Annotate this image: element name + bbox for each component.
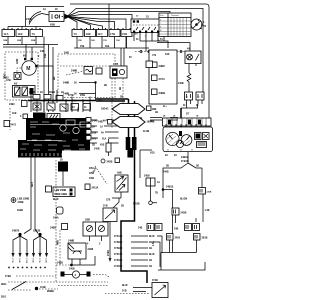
svg-text:24MB: 24MB: [71, 70, 78, 73]
svg-text:Pos: Pos: [160, 15, 163, 17]
svg-text:34BB: 34BB: [18, 201, 24, 204]
junction 24B1B: [162, 188, 165, 191]
svg-text:240B: 240B: [207, 191, 212, 194]
wire feed S1 drop: [67, 17, 126, 49]
heavy wire top to diamonds: [96, 99, 129, 101]
wire switch drop: [109, 221, 111, 223]
svg-text:7A: 7A: [74, 32, 78, 36]
fuse holder 1/5 a: [185, 92, 193, 100]
svg-text:2MB: 2MB: [17, 40, 22, 42]
ground labels: [11, 258, 47, 264]
svg-text:M/BB 34BB: M/BB 34BB: [55, 193, 68, 196]
connector B 24/2B: [101, 159, 105, 163]
connector 201B: [194, 234, 201, 241]
svg-text:24DB: 24DB: [107, 161, 113, 164]
wiper motor dashed enclosure 4/40: [5, 52, 38, 100]
svg-text:24B7: 24B7: [98, 121, 104, 124]
ground net rows: [114, 235, 162, 268]
svg-text:4/0B: 4/0B: [50, 24, 55, 27]
svg-text:2B1B: 2B1B: [202, 238, 208, 240]
wire fuse pins down: [187, 100, 203, 104]
svg-text:175B: 175B: [68, 95, 74, 97]
svg-text:5/35: 5/35: [150, 153, 155, 155]
svg-text:24B3: 24B3: [9, 103, 15, 106]
wire spine down: [121, 157, 147, 283]
svg-text:4B: 4B: [155, 111, 158, 114]
svg-text:B.+: B.+: [163, 106, 167, 108]
battery fusible-link arc B: [29, 14, 49, 25]
junction dots on bus: [43, 99, 45, 101]
terminal table 1/6: [159, 13, 191, 37]
svg-text:2B: 2B: [104, 85, 107, 87]
svg-text:3YB: 3YB: [122, 291, 127, 293]
svg-text:15B: 15B: [122, 32, 127, 36]
svg-text:24B8: 24B8: [88, 248, 94, 251]
connector 240B: [199, 188, 206, 195]
svg-text:BL/R: BL/R: [122, 285, 128, 287]
svg-text:245B: 245B: [94, 148, 100, 151]
svg-text:3YBB: 3YBB: [25, 258, 27, 264]
svg-text:31BB: 31BB: [49, 92, 55, 94]
svg-text:14MB: 14MB: [68, 240, 75, 243]
diagonal link wire: [12, 282, 26, 290]
svg-text:11C: 11C: [98, 32, 103, 36]
module pin box: [146, 61, 153, 68]
svg-text:24B7B: 24B7B: [12, 230, 20, 233]
loop wires bottom right: [161, 240, 197, 270]
connector 2413A: [85, 184, 90, 190]
connector row C: [135, 51, 188, 53]
svg-text:1.3B: 1.3B: [205, 210, 210, 212]
svg-text:24Y3: 24Y3: [159, 77, 166, 81]
connector 24DB mid: [172, 208, 179, 215]
svg-text:24DB: 24DB: [159, 91, 166, 95]
harness connector arrow 19D4/B: [112, 117, 145, 128]
inner dashed line: [60, 65, 112, 67]
svg-text:2B/J: 2B/J: [1, 297, 7, 299]
fuse holder 1/5 b: [196, 92, 204, 100]
svg-text:A9B: A9B: [117, 172, 122, 175]
wire motor feed up: [25, 45, 27, 58]
svg-text:24BB: 24BB: [57, 262, 63, 265]
svg-text:2MB: 2MB: [31, 40, 36, 42]
wire branch to connector: [139, 150, 141, 178]
heavy bus y100: [28, 100, 96, 102]
svg-text:3Y5A/O: 3Y5A/O: [114, 235, 122, 238]
svg-text:2A: 2A: [165, 154, 168, 157]
connector pill 243A: [57, 207, 64, 214]
wire coil feeds: [121, 48, 124, 66]
battery fusible-link arc A: [29, 12, 41, 23]
fuse F7: [109, 30, 120, 37]
fan junction right: [38, 233, 41, 236]
svg-text:16B: 16B: [91, 40, 95, 42]
battery 1/1: [49, 12, 64, 22]
svg-text:24B8: 24B8: [29, 91, 35, 94]
svg-text:24/B: 24/B: [64, 52, 69, 55]
svg-text:190: 190: [165, 52, 170, 56]
connector 24Y3: [4, 121, 10, 127]
heavy connector blocks: [126, 137, 131, 150]
svg-text:4A: 4A: [101, 132, 104, 135]
ignition lock hatched block: [33, 113, 46, 122]
svg-text:7/9: 7/9: [152, 53, 157, 57]
svg-text:17B: 17B: [110, 32, 115, 36]
fuse F5: [85, 30, 96, 37]
inline connector bottom center: [61, 272, 65, 277]
svg-text:4B/Y: 4B/Y: [31, 181, 34, 187]
svg-text:3A: 3A: [74, 82, 77, 85]
svg-text:1455: 1455: [113, 63, 119, 66]
svg-text:31B: 31B: [92, 133, 97, 135]
svg-text:17B: 17B: [103, 40, 107, 42]
svg-text:BL/R: BL/R: [149, 236, 155, 238]
svg-text:1.5B: 1.5B: [153, 241, 155, 246]
svg-text:24MB: 24MB: [63, 82, 70, 85]
wire feed to fuse 17B: [67, 17, 115, 30]
svg-text:24Y3: 24Y3: [11, 124, 17, 127]
svg-text:3/5B: 3/5B: [89, 178, 94, 180]
connector 241B: [167, 234, 174, 241]
svg-text:BL/R: BL/R: [149, 254, 155, 256]
svg-text:Terminal: Terminal: [171, 15, 179, 17]
connector C4/8: [146, 178, 155, 186]
dashed separator bottom: [8, 281, 108, 283]
wire long vertical c: [52, 47, 54, 112]
wire fuse feed stubs: [8, 27, 36, 30]
steering lock switch: [28, 132, 37, 140]
dashed stub: [9, 108, 11, 130]
svg-text:31.0B: 31.0B: [143, 131, 150, 133]
svg-text:15B: 15B: [78, 40, 82, 42]
rheostat 3/33: [152, 283, 168, 298]
immobilizer dashed enclosure 24/B: [58, 54, 115, 98]
wire fuse F8 drop: [126, 37, 128, 49]
wire motor output right: [38, 66, 53, 90]
dense label band above central unit: [29, 91, 85, 100]
wire fuse F1 drop: [7, 37, 9, 45]
svg-text:3B: 3B: [166, 166, 169, 168]
svg-text:240B: 240B: [178, 82, 184, 85]
wires into cluster left: [150, 118, 178, 121]
svg-text:31BB: 31BB: [17, 210, 23, 212]
svg-text:41B: 41B: [100, 144, 105, 147]
harness connector arrow 19D4/1: [112, 104, 145, 115]
svg-text:3Y5D/O: 3Y5D/O: [114, 260, 122, 262]
coil dotted drops: [112, 78, 123, 128]
fuse F3: [30, 30, 43, 37]
unit white details: [20, 120, 87, 156]
wire motor feed up2: [31, 47, 33, 58]
svg-text:24DB: 24DB: [181, 212, 187, 215]
wire immobilizer drop: [95, 83, 97, 101]
svg-text:3Y5B: 3Y5B: [38, 258, 40, 264]
svg-text:19D4/1: 19D4/1: [101, 108, 109, 111]
fuse F2: [16, 30, 29, 37]
key position symbol: [191, 19, 202, 30]
svg-text:1B: 1B: [92, 145, 95, 147]
junction label box LBB: [46, 186, 52, 192]
svg-text:3A: 3A: [74, 93, 77, 96]
svg-text:2A: 2A: [61, 91, 64, 94]
wire switch feed: [112, 198, 121, 208]
relay 2/30: [185, 51, 201, 64]
svg-text:24B1B: 24B1B: [166, 186, 174, 189]
svg-text:2/5B: 2/5B: [80, 95, 85, 97]
svg-text:24B1B: 24B1B: [181, 156, 189, 159]
svg-text:OrB: OrB: [12, 113, 17, 115]
svg-text:1A: 1A: [100, 126, 103, 129]
terminal 30 block under unit: [58, 162, 68, 172]
svg-text:15B: 15B: [116, 40, 120, 42]
central electrical unit block: [18, 140, 62, 158]
fan wires right: [34, 236, 47, 253]
svg-text:2B: 2B: [120, 87, 122, 90]
svg-text:241B: 241B: [175, 237, 181, 240]
fuse F8: [121, 30, 132, 37]
svg-text:BL/GN: BL/GN: [180, 199, 188, 201]
svg-text:11A: 11A: [4, 32, 9, 36]
svg-text:104B: 104B: [40, 286, 46, 289]
combined instrument 5/1: [163, 127, 213, 152]
svg-text:1/5: 1/5: [197, 97, 200, 99]
svg-text:31: 31: [167, 150, 169, 152]
svg-text:31BB: 31BB: [18, 258, 20, 264]
wire feed to fuse 11C: [67, 17, 103, 30]
svg-text:34BB: 34BB: [50, 227, 56, 230]
fuse F1: [2, 30, 15, 37]
bottom dashed enclosure edge: [55, 160, 57, 282]
svg-text:BOBB: BOBB: [47, 291, 54, 293]
svg-text:2B: 2B: [120, 97, 123, 99]
park switch P: [14, 73, 21, 80]
svg-text:D4/3B: D4/3B: [133, 203, 140, 206]
battery feed node: [64, 16, 67, 18]
svg-text:7B: 7B: [155, 193, 158, 195]
svg-text:19B3B: 19B3B: [33, 231, 41, 233]
wire feed to fuse 7A: [67, 17, 77, 30]
wire left bus row2: [3, 46, 44, 48]
resistor 240B: [187, 73, 191, 92]
wire to junction box: [62, 172, 64, 187]
svg-text:15B: 15B: [45, 53, 47, 58]
svg-text:30: 30: [191, 150, 193, 152]
svg-text:19D4/B: 19D4/B: [147, 121, 155, 124]
splice 104B: [35, 287, 38, 290]
svg-text:4YB3: 4YB3: [5, 275, 12, 278]
wire stubs into unit: [31, 90, 90, 112]
ground point G: [11, 198, 16, 203]
fan junction left: [18, 233, 21, 236]
battery enclosure box: [26, 7, 65, 27]
svg-text:2A: 2A: [40, 91, 43, 94]
wire LED drop: [120, 192, 122, 198]
svg-text:24B: 24B: [138, 227, 143, 230]
svg-text:3Y4D/O: 3Y4D/O: [114, 265, 122, 268]
S1 pin row: [133, 31, 135, 33]
svg-text:24B8: 24B8: [159, 64, 166, 68]
svg-text:1A: 1A: [43, 8, 46, 11]
svg-text:3Y4B: 3Y4B: [152, 279, 158, 282]
wire center bus y48: [74, 47, 149, 49]
wire fuse F3 drop: [35, 37, 37, 45]
interior relay 14xB: [68, 243, 86, 259]
wire fuse F5 drop: [89, 37, 91, 49]
rheostat wires: [133, 288, 152, 292]
fuse F4: [72, 30, 83, 37]
svg-text:1A: 1A: [157, 181, 160, 184]
svg-text:31B: 31B: [105, 46, 110, 48]
svg-text:1/5: 1/5: [186, 97, 189, 99]
wire pair from unit to fan junctions: [24, 158, 38, 234]
svg-text:3/9B: 3/9B: [85, 220, 90, 222]
cluster top pins: [166, 124, 206, 127]
svg-text:3Y5B/O: 3Y5B/O: [114, 242, 122, 244]
svg-text:41A: 41A: [102, 138, 107, 141]
svg-text:31BB: 31BB: [45, 258, 47, 264]
wire left bus row1: [3, 44, 58, 46]
ground arrows: [11, 253, 48, 258]
page border top/right: [70, 4, 209, 128]
connector D4/3B: [149, 201, 153, 205]
svg-text:LBB 15MB: LBB 15MB: [18, 199, 30, 201]
wire long vertical a: [43, 37, 45, 113]
svg-text:A/6R: A/6R: [16, 58, 19, 64]
motor M 2/1: [22, 61, 36, 75]
svg-text:2413A: 2413A: [92, 187, 99, 190]
svg-text:4MB: 4MB: [57, 240, 60, 245]
interior vertical to ground: [109, 222, 111, 259]
wire fuse F4 drop: [76, 37, 78, 49]
ignition coil 15/5: [110, 66, 127, 78]
lock contact unit: [83, 222, 108, 236]
svg-text:1MB: 1MB: [3, 40, 8, 42]
svg-text:3YB: 3YB: [103, 206, 108, 208]
fuse F6: [97, 30, 108, 37]
lighting switch 3/4: [103, 208, 117, 222]
svg-text:28B: 28B: [152, 109, 157, 111]
svg-text:10B: 10B: [86, 32, 91, 36]
svg-text:32: 32: [180, 150, 182, 152]
svg-text:24B: 24B: [174, 228, 179, 231]
svg-text:A7B: A7B: [6, 79, 11, 82]
svg-text:1B: 1B: [149, 260, 152, 262]
svg-text:5B: 5B: [196, 166, 199, 168]
svg-text:2B: 2B: [121, 206, 124, 208]
junction dot: [94, 81, 96, 83]
svg-text:LBB 15MB: LBB 15MB: [55, 190, 67, 192]
connector block 4/5: [13, 86, 36, 98]
instrument feed wires: [181, 104, 198, 108]
wire S1 pin drops: [134, 33, 164, 52]
wire long vertical b: [48, 45, 50, 113]
wire bus A: [67, 9, 203, 93]
svg-text:M: M: [26, 66, 30, 72]
svg-text:15B: 15B: [80, 46, 85, 48]
ignition switch S1: [131, 19, 168, 33]
wire relay pins: [188, 64, 190, 74]
central module 7/9 box: [149, 50, 177, 104]
svg-text:1B: 1B: [149, 248, 152, 250]
wire feed to fuse 10B: [67, 17, 91, 30]
fan wires left: [13, 236, 27, 253]
bottom dot row: [8, 267, 46, 269]
wire top feed drop: [108, 4, 110, 30]
wire S1 collector: [140, 41, 168, 48]
svg-text:0: 0: [160, 20, 161, 22]
svg-text:24D8: 24D8: [144, 175, 150, 178]
svg-text:240B: 240B: [69, 268, 75, 271]
wire fuse F2 drop: [21, 37, 23, 45]
immobilizer LED 24B6: [115, 175, 128, 192]
svg-text:11B: 11B: [18, 32, 23, 36]
wire connector drop: [150, 186, 152, 201]
wire 1B drop: [202, 194, 204, 222]
sub components under bus: [33, 103, 41, 110]
unit banding: [27, 140, 62, 142]
dashed link with node: [56, 264, 80, 266]
svg-text:240B: 240B: [163, 171, 169, 174]
wire bus C: [67, 15, 132, 20]
svg-text:240B: 240B: [26, 18, 32, 21]
wire bus B: [67, 12, 170, 17]
svg-text:17B: 17B: [106, 200, 111, 202]
svg-text:3Y5C/O: 3Y5C/O: [114, 254, 122, 256]
heavy lead into cluster: [180, 108, 182, 136]
svg-text:7A: 7A: [32, 32, 36, 36]
wire fuse F7 drop: [114, 37, 116, 49]
svg-text:3Y5B: 3Y5B: [11, 258, 13, 264]
svg-text:2B/H: 2B/H: [1, 284, 7, 286]
unit output rows right: [86, 118, 119, 147]
wire fuse F6 drop: [101, 37, 103, 49]
svg-text:2YB1: 2YB1: [108, 249, 110, 256]
svg-text:1B: 1B: [149, 266, 152, 268]
svg-text:1B: 1B: [149, 242, 152, 244]
svg-text:2A: 2A: [174, 154, 177, 157]
svg-text:RD: RD: [54, 76, 56, 80]
svg-text:3Y5B/O: 3Y5B/O: [114, 248, 122, 250]
antenna coil symbol: [84, 67, 93, 75]
svg-text:31BB: 31BB: [32, 258, 34, 264]
